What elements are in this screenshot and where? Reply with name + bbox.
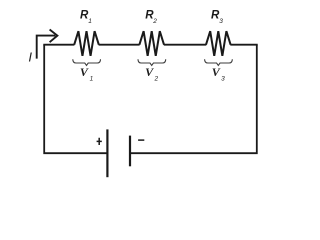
wire top segment R1 to R2 [99,44,140,46]
svg-text:I: I [28,50,32,65]
svg-text:3: 3 [221,76,225,83]
resistor R2 [139,31,164,56]
svg-text:2: 2 [152,18,157,25]
current arrow shaft [37,36,56,59]
resistor R3 [206,31,231,56]
underbrace under R3 [205,59,233,65]
battery positive plate (long) [106,129,108,177]
wire top segment R3 to right corner [230,44,257,46]
svg-text:V: V [80,65,89,79]
svg-text:V: V [212,65,221,79]
svg-text:2: 2 [154,76,159,83]
wire top segment R2 to R3 [164,44,207,46]
underbrace under R2 [138,59,166,65]
svg-text:1: 1 [90,76,94,83]
wire top segment from left corner to R1 [43,44,74,46]
label - [138,139,144,141]
svg-text:V: V [145,65,154,79]
current arrow head [50,30,58,43]
underbrace under R1 [73,59,101,65]
battery negative plate (short) [129,136,131,167]
wire right side + bottom-right to battery negative [130,45,257,154]
label + [97,138,102,145]
wire left side + bottom-left to battery positive [44,45,107,154]
svg-text:3: 3 [219,18,223,25]
svg-text:1: 1 [88,18,92,25]
resistor R1 [74,31,99,56]
